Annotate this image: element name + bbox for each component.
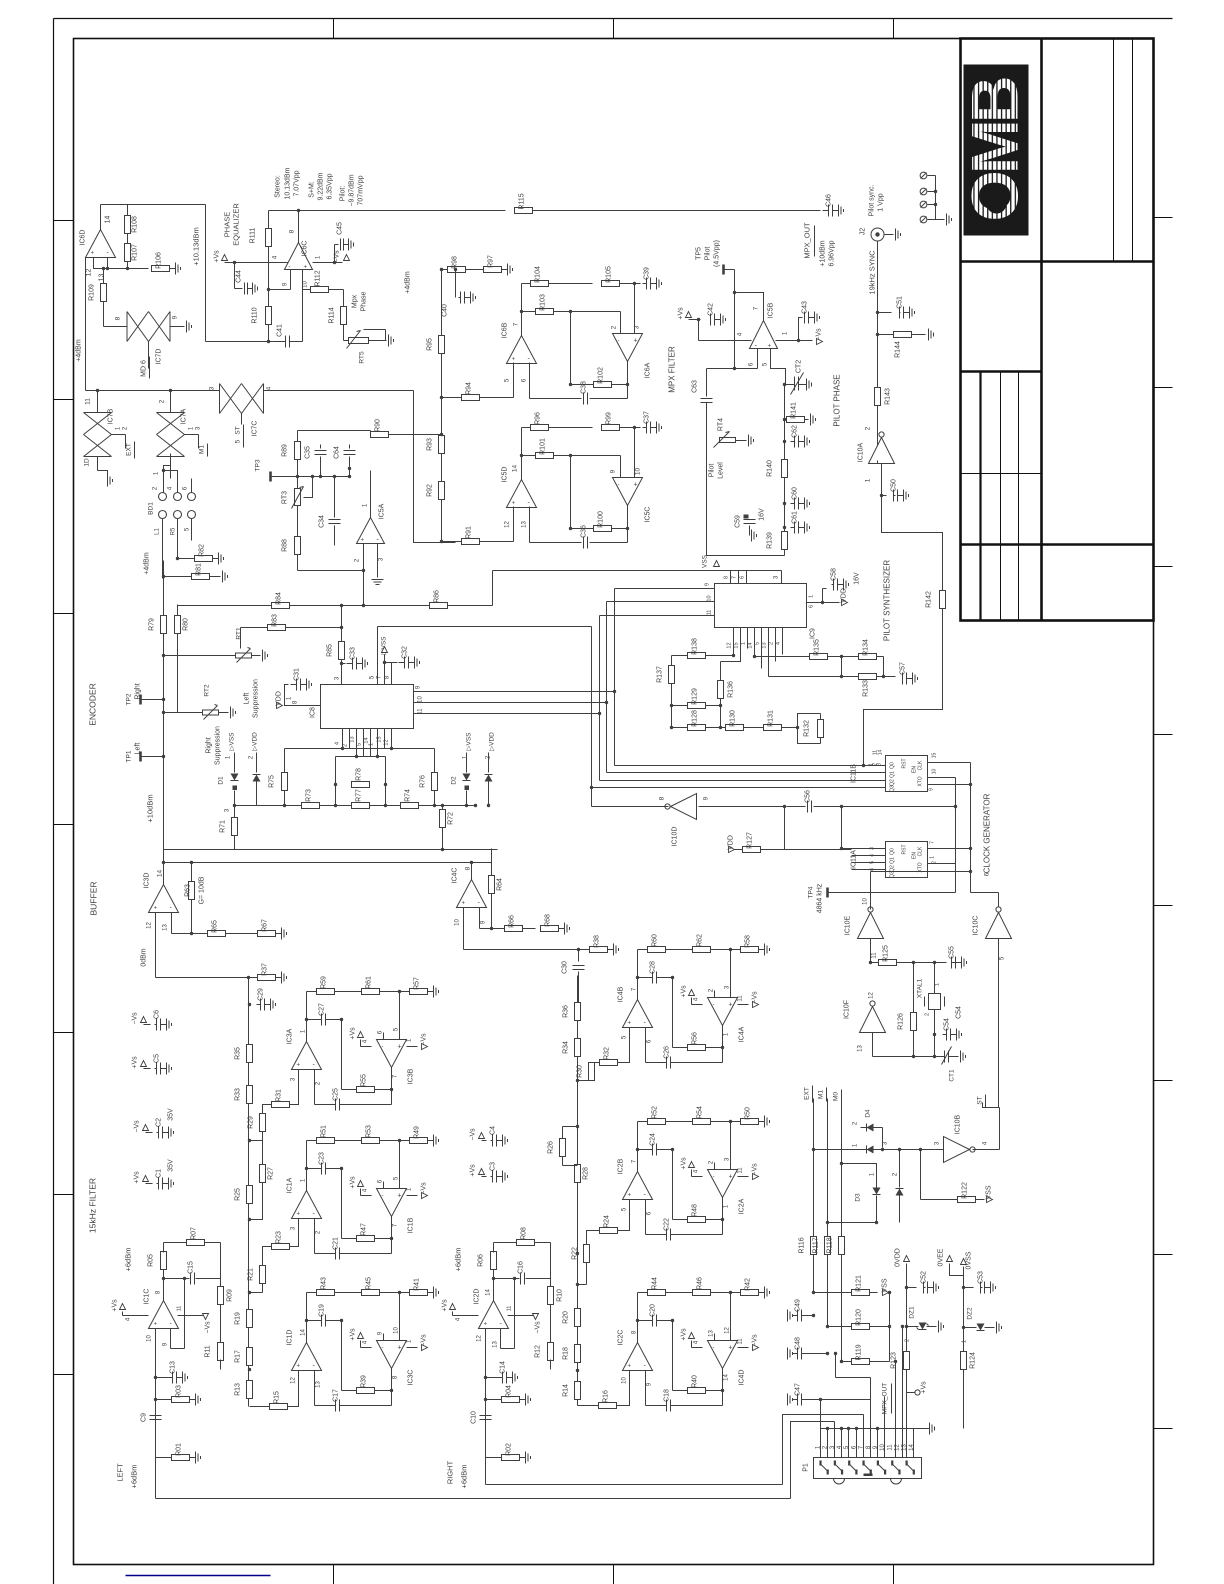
svg-text:R119: R119 — [856, 1344, 863, 1360]
junction — [233, 261, 236, 264]
junction — [577, 948, 580, 951]
wire — [297, 705, 321, 707]
svg-text:13: 13 — [350, 736, 356, 742]
resistor R120 — [852, 1309, 870, 1329]
svg-text:IC10C: IC10C — [973, 916, 980, 936]
ground — [896, 229, 901, 241]
svg-text:R26: R26 — [548, 1141, 555, 1154]
wire — [334, 477, 336, 518]
label underline EXT2 — [812, 1086, 814, 1103]
wire pin10 — [155, 1329, 157, 1458]
svg-text:R45: R45 — [366, 1277, 373, 1290]
wire — [471, 863, 473, 880]
wire — [389, 434, 442, 436]
IC IC9 — [715, 584, 807, 628]
resistor R45 — [362, 1277, 380, 1296]
wire — [671, 684, 673, 706]
svg-text:C60: C60 — [792, 487, 799, 500]
capacitor C2 — [156, 1118, 174, 1139]
wire — [377, 729, 379, 757]
wire — [307, 1320, 322, 1322]
wire — [399, 1327, 401, 1341]
svg-text:R19: R19 — [235, 1312, 242, 1325]
wire — [744, 727, 749, 729]
wire — [620, 427, 641, 429]
junction — [333, 261, 336, 264]
connector P1 pin pairs — [819, 1461, 915, 1475]
wire — [714, 1163, 716, 1170]
wire — [298, 570, 364, 572]
wire — [822, 589, 824, 603]
wire IC9 bottom pin stubs — [733, 628, 735, 656]
resistor R03 — [172, 1385, 201, 1406]
capacitor C38 — [581, 381, 588, 405]
svg-text:+: + — [462, 901, 466, 907]
wire — [906, 1264, 908, 1429]
wire — [314, 1371, 316, 1389]
svg-text:C51: C51 — [897, 296, 904, 309]
wire — [492, 571, 494, 606]
capacitor C48 — [788, 1337, 828, 1360]
op-amp — [623, 1000, 653, 1028]
svg-text:C10: C10 — [471, 1411, 478, 1424]
svg-text:R30: R30 — [577, 1065, 584, 1078]
svg-text:C61: C61 — [792, 511, 799, 524]
junction — [636, 976, 639, 979]
wire — [464, 949, 590, 951]
svg-text:R58: R58 — [745, 935, 752, 948]
junction — [576, 1079, 579, 1082]
svg-text:R80: R80 — [183, 618, 190, 631]
svg-text:R132: R132 — [804, 720, 811, 737]
capacitor C63 — [706, 369, 708, 397]
op-amp — [377, 1341, 407, 1369]
wire — [882, 496, 943, 591]
junction — [470, 861, 473, 864]
wire pin5 — [513, 363, 515, 398]
svg-text:Left: Left — [244, 693, 251, 705]
wire pin10 — [302, 270, 304, 342]
svg-text:R24: R24 — [604, 1215, 611, 1228]
junction — [783, 418, 786, 421]
wire — [122, 1312, 124, 1316]
wire — [755, 656, 810, 658]
zener DZ2 — [977, 1324, 985, 1331]
resistor R44 — [648, 1277, 666, 1296]
inverter — [869, 432, 895, 464]
wire — [897, 962, 914, 964]
svg-text:IC2D: IC2D — [474, 1289, 481, 1305]
wire — [776, 340, 813, 342]
svg-text:10: 10 — [622, 1377, 628, 1384]
wire — [234, 753, 236, 773]
wire — [691, 1170, 693, 1177]
svg-text:R84: R84 — [276, 592, 283, 605]
title block — [961, 39, 1154, 621]
junction — [440, 433, 443, 436]
wire — [976, 1199, 985, 1201]
svg-text:R25: R25 — [235, 1188, 242, 1201]
junction — [869, 961, 872, 964]
wire pin9 feedback — [500, 1329, 502, 1349]
svg-text:R46: R46 — [697, 1277, 704, 1290]
ground — [223, 571, 228, 583]
svg-text:C50: C50 — [891, 479, 898, 492]
wire — [689, 319, 701, 321]
svg-text:C53: C53 — [978, 1271, 985, 1284]
svg-text:14: 14 — [301, 1329, 307, 1336]
wire — [627, 506, 629, 543]
inverter — [986, 907, 1012, 939]
wire — [252, 655, 261, 657]
wire — [970, 763, 972, 893]
resistor R66 — [505, 915, 523, 932]
wire — [164, 712, 203, 714]
svg-text:R131: R131 — [768, 710, 775, 727]
wire — [281, 476, 350, 478]
svg-text:C17: C17 — [333, 1389, 340, 1402]
svg-text:R04: R04 — [506, 1385, 513, 1398]
svg-text:14: 14 — [748, 642, 754, 648]
svg-text:35V: 35V — [168, 1108, 175, 1121]
wire — [877, 242, 879, 461]
wire — [391, 1217, 393, 1239]
svg-text:R125: R125 — [883, 945, 890, 962]
capacitor C28 — [650, 961, 657, 984]
svg-text:C16: C16 — [518, 1261, 525, 1274]
resistor R122 — [958, 1182, 976, 1202]
op-amp IC5B — [750, 321, 778, 349]
resistor R46 — [693, 1277, 711, 1296]
svg-text:R72: R72 — [448, 812, 455, 825]
wire right input — [486, 1484, 783, 1486]
capacitor C36 — [581, 525, 588, 549]
junction — [484, 1398, 487, 1401]
resistor R39 — [357, 1375, 375, 1394]
svg-text:C40: C40 — [442, 304, 449, 317]
wire — [645, 1371, 647, 1389]
junction — [840, 1162, 843, 1165]
power &#8722;Vs — [132, 1012, 147, 1025]
svg-text:M1: M1 — [199, 445, 206, 454]
capacitor C17 — [333, 1389, 340, 1412]
wire — [842, 1361, 852, 1363]
wire — [722, 1198, 724, 1220]
svg-text:7: 7 — [930, 841, 936, 844]
junction — [598, 712, 601, 715]
capacitor C20 — [650, 1304, 657, 1327]
svg-text:+: + — [628, 1021, 632, 1027]
wire — [999, 1108, 1001, 1150]
svg-text:+: + — [512, 501, 516, 507]
svg-text:6: 6 — [809, 605, 815, 608]
junction — [305, 1018, 308, 1021]
svg-text:+10dBm: +10dBm — [820, 240, 827, 266]
resistor R41 — [410, 1278, 439, 1299]
svg-text:IC1C: IC1C — [144, 1289, 151, 1305]
svg-text:8: 8 — [659, 796, 666, 800]
junction — [340, 1319, 343, 1322]
wire — [620, 312, 622, 334]
resistor R104 — [531, 266, 549, 286]
svg-text:DZ2: DZ2 — [967, 1307, 974, 1320]
wire — [870, 1326, 890, 1328]
junction — [898, 1148, 901, 1151]
wire — [852, 855, 886, 857]
svg-text:14: 14 — [105, 216, 112, 224]
wire — [151, 756, 164, 758]
svg-text:ST: ST — [235, 426, 242, 434]
wire — [240, 628, 242, 649]
svg-text:R63: R63 — [185, 884, 192, 897]
wire — [823, 602, 840, 604]
wire output — [178, 1315, 204, 1317]
svg-text:+6dBm: +6dBm — [124, 1248, 133, 1272]
wire — [841, 1255, 843, 1362]
power — [382, 647, 388, 653]
wire — [645, 1028, 647, 1046]
resistor R76 — [420, 773, 438, 791]
op-amp — [623, 1343, 653, 1371]
IC IC8 — [321, 685, 414, 729]
svg-text:-: - — [618, 339, 620, 345]
svg-text:11: 11 — [738, 995, 744, 1002]
junction — [840, 675, 843, 678]
inverter — [665, 794, 697, 820]
wire — [340, 1253, 392, 1255]
resistor R07 — [187, 1227, 205, 1246]
inverter IC10B — [944, 1137, 976, 1163]
svg-text:R101: R101 — [540, 438, 547, 455]
svg-text:13: 13 — [709, 1330, 715, 1337]
wire — [298, 1070, 300, 1084]
resistor R102 — [594, 367, 612, 387]
wire — [578, 1405, 599, 1407]
svg-text:Pilot: Pilot — [705, 247, 712, 261]
op-amp — [292, 1343, 322, 1371]
resistor R75 — [269, 773, 288, 791]
svg-text:R76: R76 — [420, 775, 427, 788]
svg-text:Q1: Q1 — [890, 771, 896, 778]
svg-text:L1: L1 — [155, 528, 161, 535]
IC IC11A — [886, 842, 928, 878]
op-amp — [149, 1301, 179, 1329]
junction — [905, 1325, 908, 1328]
potentiometer RT5 — [349, 338, 369, 344]
resistor R133 — [859, 674, 877, 697]
svg-text:R98: R98 — [452, 256, 459, 269]
svg-text:R141: R141 — [791, 402, 798, 419]
label underline MPXOUT2 — [891, 1384, 893, 1414]
junction — [954, 805, 957, 808]
wire — [578, 972, 580, 1004]
wire — [706, 1047, 723, 1049]
svg-text:16V: 16V — [759, 508, 766, 521]
wire — [787, 806, 806, 808]
svg-text:+: + — [729, 1002, 733, 1009]
wire — [151, 699, 164, 701]
wire — [342, 663, 346, 665]
capacitor C32 — [399, 646, 420, 669]
junction — [933, 1033, 936, 1036]
svg-text:+: + — [398, 1044, 402, 1051]
svg-text:+: + — [634, 338, 638, 345]
wire — [192, 933, 208, 935]
junction — [267, 340, 270, 343]
wire pin5 vss — [377, 627, 379, 685]
svg-text:R105: R105 — [606, 266, 613, 283]
wire — [250, 1292, 263, 1294]
wire pin3 — [377, 544, 379, 578]
svg-text:+: + — [154, 906, 158, 912]
resistor R83 — [268, 614, 286, 631]
svg-text:2: 2 — [905, 1339, 911, 1342]
wire left bus — [248, 978, 250, 1407]
wire 0dBm row — [164, 849, 498, 851]
svg-text:R103: R103 — [540, 294, 547, 311]
svg-text:IC5A: IC5A — [379, 503, 386, 519]
svg-text:DZ1: DZ1 — [909, 1306, 916, 1319]
svg-text:14: 14 — [157, 870, 164, 878]
junction — [819, 1398, 822, 1401]
wire — [738, 571, 740, 584]
svg-text:10: 10 — [880, 1444, 886, 1451]
svg-text:BUFFER: BUFFER — [89, 882, 99, 916]
resistor R97 — [484, 255, 513, 276]
wire — [97, 391, 99, 413]
wire — [722, 1220, 724, 1235]
wire — [617, 1384, 630, 1406]
junction — [783, 502, 786, 505]
wire pin10 — [485, 1329, 487, 1458]
ground — [263, 650, 268, 662]
wire — [841, 807, 843, 849]
resistor R72 — [440, 810, 455, 828]
svg-text:Pilot:: Pilot: — [340, 186, 347, 202]
resistor R106 — [152, 252, 181, 274]
wire — [638, 949, 648, 951]
wire — [842, 676, 859, 678]
junction — [162, 575, 165, 578]
wire left bus — [163, 561, 165, 863]
wire — [920, 1150, 922, 1200]
op-amp — [708, 1341, 738, 1369]
wire — [884, 676, 896, 678]
junction — [383, 661, 386, 664]
wire — [314, 1088, 316, 1105]
wire — [899, 1196, 901, 1223]
power &#8722;Vs — [752, 991, 759, 1008]
wire — [480, 928, 492, 930]
svg-text:R121: R121 — [856, 1275, 863, 1292]
svg-text:(4.5Vpp): (4.5Vpp) — [714, 240, 721, 267]
wire — [784, 827, 786, 850]
wire — [156, 977, 258, 979]
wire pin row — [285, 748, 435, 750]
svg-text:R34: R34 — [563, 1041, 570, 1054]
junction — [721, 1389, 724, 1392]
svg-text:C2: C2 — [156, 1118, 163, 1127]
svg-text:IC10B: IC10B — [955, 1114, 962, 1134]
wire — [814, 806, 842, 808]
svg-text:MPX_OUT: MPX_OUT — [803, 222, 812, 259]
junction — [875, 1221, 878, 1224]
svg-text:R122: R122 — [962, 1182, 969, 1199]
junction — [340, 604, 343, 607]
junction — [154, 1376, 157, 1379]
svg-text:-: - — [618, 483, 620, 489]
svg-text:Q0: Q0 — [890, 762, 896, 769]
wire — [730, 1122, 732, 1156]
wire — [927, 1326, 937, 1328]
svg-text:1: 1 — [930, 856, 936, 859]
svg-text:13: 13 — [522, 521, 528, 528]
wire — [921, 1199, 958, 1201]
svg-text:C19: C19 — [319, 1304, 326, 1317]
resistor R64 — [489, 876, 504, 894]
svg-text:RT2: RT2 — [204, 684, 211, 697]
svg-text:PILOT SYNTHESIZER: PILOT SYNTHESIZER — [883, 560, 892, 641]
svg-text:+Vs: +Vs — [681, 1328, 688, 1341]
power 0VDD — [895, 1248, 910, 1267]
svg-text:7: 7 — [753, 306, 760, 310]
svg-text:R37: R37 — [262, 963, 269, 976]
wire — [307, 991, 317, 993]
resistor R61 — [362, 976, 380, 995]
wire — [363, 729, 365, 757]
wire — [241, 627, 268, 629]
svg-text:C26: C26 — [664, 1046, 671, 1059]
wire — [730, 1293, 732, 1327]
wire — [320, 457, 322, 477]
wire — [998, 939, 1000, 963]
label underline M12 — [826, 1088, 828, 1102]
svg-text:14: 14 — [878, 750, 884, 756]
resistor R60 — [648, 934, 666, 953]
connector J2 — [871, 228, 884, 241]
wire — [177, 605, 179, 616]
op-amp IC6C — [285, 243, 313, 270]
power VDD — [841, 588, 848, 605]
wire — [407, 1046, 418, 1048]
connector pin n/c — [920, 172, 927, 179]
diode D3 — [873, 1188, 881, 1195]
junction — [513, 1277, 516, 1280]
wire output — [313, 262, 343, 264]
svg-text:IC8: IC8 — [310, 707, 317, 718]
junction — [729, 1291, 732, 1294]
wire — [164, 576, 192, 578]
wire — [307, 1019, 322, 1021]
wire — [234, 791, 236, 806]
junction — [840, 847, 843, 850]
svg-text:EQUALIZER: EQUALIZER — [232, 203, 241, 246]
wire — [985, 1327, 995, 1329]
power VDD — [728, 835, 735, 852]
wire — [955, 778, 957, 893]
wire — [103, 269, 105, 284]
wire — [805, 419, 809, 421]
wire — [391, 1090, 393, 1105]
wire left input — [156, 1498, 791, 1500]
capacitor C26 — [664, 1046, 671, 1069]
ground — [947, 214, 952, 226]
power -Vs — [533, 1314, 539, 1320]
svg-text:−Vs: −Vs — [421, 1182, 428, 1195]
svg-text:RT5: RT5 — [359, 351, 366, 364]
wire — [522, 455, 536, 457]
svg-text:−Vs: −Vs — [421, 1334, 428, 1347]
